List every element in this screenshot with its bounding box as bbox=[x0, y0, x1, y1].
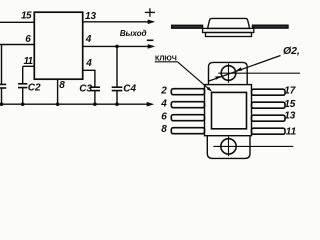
svg-text:8: 8 bbox=[59, 80, 65, 91]
svg-text:2: 2 bbox=[160, 86, 167, 97]
svg-text:15: 15 bbox=[284, 99, 296, 110]
svg-text:17: 17 bbox=[284, 86, 296, 97]
svg-text:8: 8 bbox=[161, 124, 167, 135]
svg-text:Ø2,5: Ø2,5 bbox=[283, 45, 300, 57]
svg-text:4: 4 bbox=[85, 34, 92, 45]
svg-text:15: 15 bbox=[21, 11, 32, 22]
svg-text:13: 13 bbox=[85, 11, 97, 22]
svg-text:11: 11 bbox=[24, 56, 34, 67]
svg-text:13: 13 bbox=[284, 111, 296, 122]
svg-text:C4: C4 bbox=[123, 84, 136, 95]
svg-text:11: 11 bbox=[286, 127, 297, 138]
svg-text:Выход: Выход bbox=[120, 29, 147, 38]
svg-text:C3: C3 bbox=[79, 83, 92, 94]
svg-text:C2: C2 bbox=[28, 83, 41, 94]
svg-text:6: 6 bbox=[161, 111, 167, 122]
svg-text:4: 4 bbox=[160, 99, 167, 110]
svg-text:4: 4 bbox=[85, 58, 92, 69]
svg-text:6: 6 bbox=[25, 34, 31, 45]
